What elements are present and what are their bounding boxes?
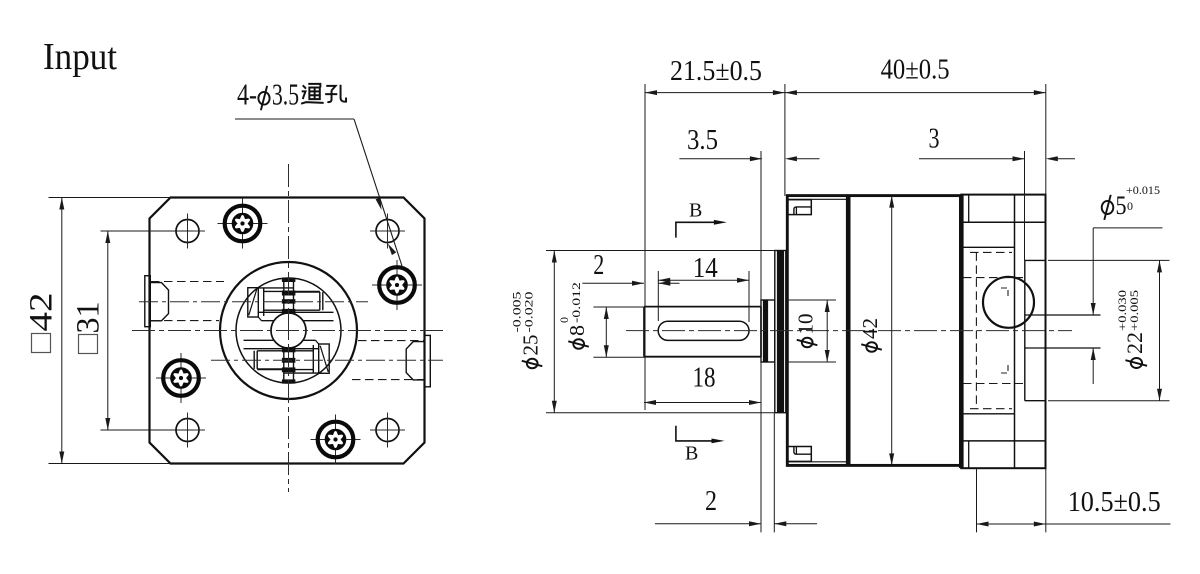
- through hole Φ3.5 #3: [170, 413, 205, 448]
- svg-text:42: 42: [858, 318, 882, 339]
- svg-text:25: 25: [519, 335, 543, 356]
- svg-text:14: 14: [693, 253, 718, 284]
- main centerline right view: [626, 330, 1072, 332]
- svg-text:B: B: [685, 443, 698, 465]
- dimension 2 keyway offset: [582, 271, 679, 321]
- bearing ball: [983, 277, 1034, 328]
- svg-text:2: 2: [593, 250, 604, 281]
- snap ring groove bottom: [787, 447, 811, 462]
- text □31: [71, 302, 107, 354]
- dimension 18: [644, 400, 761, 405]
- input shaft Φ8: [644, 306, 761, 308]
- cap screw #3: [156, 353, 206, 403]
- planet pin bottom: [244, 340, 330, 373]
- svg-text:40±0.5: 40±0.5: [881, 55, 950, 86]
- svg-text:10.5±0.5: 10.5±0.5: [1068, 487, 1161, 518]
- text Φ8 0/-0.012: [557, 282, 589, 349]
- cap screw #1: [218, 199, 268, 249]
- svg-text:3.5: 3.5: [687, 125, 718, 156]
- dimension Φ22: [1048, 260, 1170, 400]
- dimension 3: [919, 151, 1075, 260]
- rear hidden details: [963, 252, 1072, 409]
- hidden line top-right: [358, 340, 424, 342]
- dimension 2 collar: [655, 410, 817, 532]
- through hole Φ3.5 #4: [370, 413, 405, 448]
- through hole Φ3.5 #2: [370, 214, 405, 249]
- vertical centerline left view: [288, 164, 290, 492]
- hidden line top-left: [151, 281, 224, 283]
- svg-text:-0.020: -0.020: [522, 292, 536, 333]
- hidden line bottom-left: [151, 320, 219, 322]
- flange outline: [150, 198, 425, 464]
- left connector head: [151, 283, 169, 321]
- sun shaft circle: [271, 313, 306, 348]
- svg-text:+0.005: +0.005: [1127, 290, 1141, 331]
- text □42: [24, 293, 60, 353]
- snap ring groove top: [787, 200, 811, 215]
- svg-text:10: 10: [794, 314, 818, 335]
- through hole Φ3.5 #1: [170, 214, 205, 249]
- center cross: [281, 330, 296, 332]
- axis pin top: [139, 301, 368, 303]
- svg-text:31: 31: [71, 302, 107, 334]
- svg-text:5: 5: [1116, 191, 1127, 220]
- cap screw #4: [311, 415, 361, 465]
- hidden line bottom-right: [352, 379, 424, 381]
- bearing bore circle outer: [220, 262, 357, 399]
- text Φ42: [858, 318, 882, 352]
- housing joint: [846, 196, 851, 466]
- gearbox body outline: [787, 196, 961, 466]
- bearing bore circle inner: [236, 278, 341, 383]
- dimension Φ5 arrows: [1091, 228, 1163, 384]
- dimension Φ10: [787, 300, 836, 362]
- svg-text:Input: Input: [43, 36, 117, 78]
- svg-text:+0.015: +0.015: [1126, 183, 1160, 197]
- svg-text:22: 22: [1122, 332, 1147, 354]
- dimension 3.5: [679, 151, 819, 410]
- dimension □31: [101, 231, 194, 430]
- svg-text:21.5±0.5: 21.5±0.5: [670, 56, 762, 87]
- text Φ22 +0.030/+0.005: [1115, 290, 1147, 368]
- body top inner line: [789, 198, 846, 200]
- dimension 21.5 / 40: [645, 84, 1046, 532]
- section mark B top: [676, 220, 727, 238]
- dimension Φ25: [546, 251, 775, 413]
- svg-text:0: 0: [1127, 199, 1133, 213]
- svg-text:8: 8: [565, 325, 589, 336]
- svg-text:4-: 4-: [237, 77, 257, 112]
- right connector head: [406, 342, 424, 380]
- rear housing: [961, 195, 1045, 469]
- keyway slot: [658, 321, 749, 340]
- central pin section: [282, 278, 295, 383]
- section mark B bottom: [676, 426, 725, 444]
- dimension Φ42: [889, 196, 894, 466]
- shaft collar Φ10: [761, 300, 775, 362]
- text Φ10: [794, 314, 818, 348]
- text Φ25 -0.005/-0.020: [510, 292, 543, 369]
- svg-text:3: 3: [929, 124, 940, 155]
- cap screw #2: [372, 260, 422, 310]
- Φ5 bore lines: [1025, 314, 1101, 316]
- dimension 14: [658, 271, 749, 322]
- svg-text:B: B: [689, 200, 702, 222]
- horizontal centerline left view: [132, 330, 444, 332]
- axis pin bottom: [211, 359, 443, 361]
- planet pin top: [248, 288, 334, 321]
- svg-text:18: 18: [693, 363, 716, 394]
- svg-text:42: 42: [24, 293, 60, 332]
- dimension □42: [49, 198, 172, 464]
- output plate Φ22 recess: [1025, 260, 1046, 400]
- svg-text:-0.012: -0.012: [569, 282, 583, 323]
- dimension Φ8: [593, 307, 645, 357]
- left connector tab: [145, 276, 151, 327]
- right connector tab: [424, 335, 430, 386]
- svg-text:2: 2: [705, 486, 717, 517]
- text Φ5 +0.015/0: [1102, 183, 1160, 220]
- dimension 10.5: [977, 468, 1171, 532]
- rear joint: [959, 195, 964, 468]
- pilot boss Φ25: [775, 251, 786, 413]
- body bottom inner line: [789, 461, 846, 463]
- label 4-Φ3.5 through holes with leader: [235, 77, 403, 268]
- svg-text:3.5: 3.5: [272, 77, 299, 112]
